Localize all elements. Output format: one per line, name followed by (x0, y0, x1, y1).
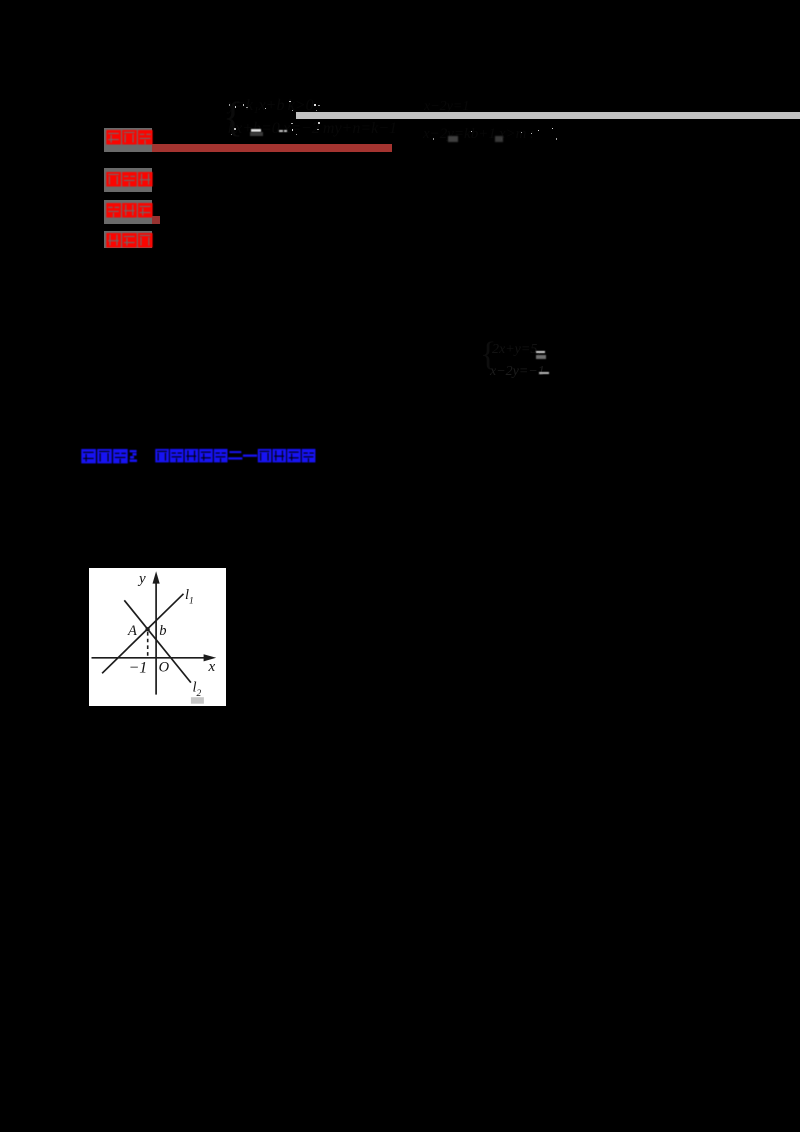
line l2 (124, 600, 191, 682)
red label 3 (104, 200, 152, 224)
faint system brace top (223, 94, 243, 142)
blue heading group 1 (81, 448, 139, 464)
y axis (155, 578, 157, 695)
faint equation line right (423, 126, 534, 143)
red label 4 (104, 231, 152, 248)
svg-text:−1: −1 (128, 659, 147, 676)
faint equation line 1 (228, 97, 314, 115)
faint system brace (480, 336, 496, 374)
bright dash pair (279, 130, 283, 132)
dark red underline bar (152, 144, 392, 151)
bright minus (539, 372, 549, 374)
faint system line 1 (492, 342, 541, 358)
svg-text:b: b (159, 622, 166, 638)
x axis (91, 656, 206, 658)
line l1 (102, 593, 183, 673)
svg-text:x: x (207, 659, 215, 675)
svg-text:O: O (158, 659, 169, 675)
dark red nub (152, 216, 160, 223)
speckles (229, 104, 230, 105)
blue heading group 2 (155, 448, 317, 463)
faint system line 2 (490, 364, 545, 380)
dashed drop line (146, 632, 148, 657)
bright fraction dash (251, 129, 261, 131)
point A dot (145, 627, 149, 631)
watermark smudge (190, 697, 203, 704)
figure: coordinate plot (89, 568, 226, 706)
gray highlight bar (296, 112, 800, 119)
red label 1 (104, 128, 152, 152)
x axis arrowhead (203, 654, 216, 661)
svg-text:y: y (137, 570, 146, 586)
faint equation line 2 (228, 120, 397, 138)
gray blob under dash (250, 132, 263, 136)
bright equals top (536, 351, 545, 353)
red label 2 (104, 168, 152, 192)
svg-text:A: A (127, 623, 137, 639)
gray equals bottom (536, 355, 546, 359)
y axis arrowhead (152, 571, 159, 583)
